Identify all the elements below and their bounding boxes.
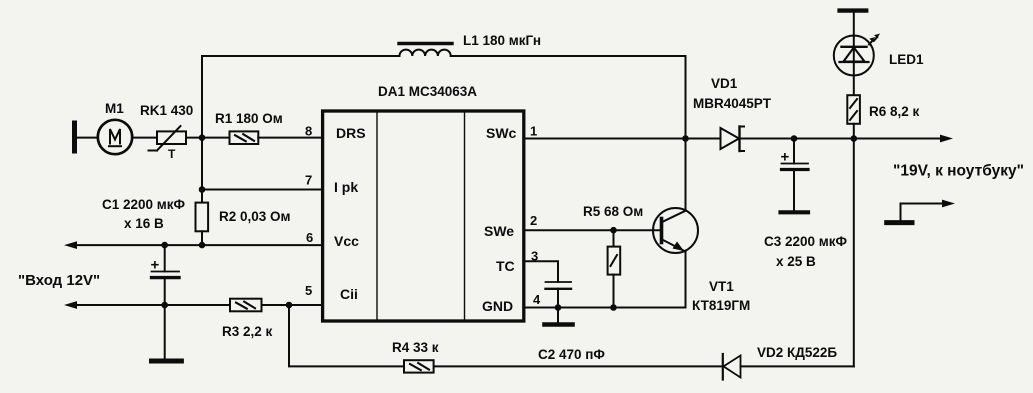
resistor R2 bbox=[196, 203, 209, 232]
junction SWc/collector/L1 bbox=[682, 135, 689, 142]
svg-text:1: 1 bbox=[530, 124, 537, 139]
svg-text:VD1: VD1 bbox=[711, 76, 738, 91]
wire: vertical bus x=202 from top rail down to pin7 junction bbox=[201, 56, 203, 190]
wire: R5 top lead bbox=[613, 230, 615, 246]
wire: feedback bottom rail right of VD2 bbox=[741, 365, 854, 367]
wire: R2 bottom lead to Vcc rail bbox=[201, 231, 203, 245]
wire: pin 2 to VT1 base bbox=[524, 229, 662, 231]
svg-text:Cii: Cii bbox=[340, 286, 358, 302]
wire: pin 1 to VD1 bbox=[524, 138, 721, 140]
wire: RK1 to R1 through node A bbox=[186, 137, 230, 139]
resistor R4 bbox=[404, 360, 434, 372]
wire: plug to motor bbox=[76, 137, 98, 139]
svg-text:MBR4045PT: MBR4045PT bbox=[693, 96, 772, 111]
ground under C1 bbox=[152, 359, 182, 364]
wire: LED1 to R6 bbox=[853, 76, 855, 96]
svg-text:VD2 КД522Б: VD2 КД522Б bbox=[757, 345, 837, 360]
resistor R1 bbox=[230, 131, 259, 144]
thermistor RK1 bbox=[149, 126, 187, 161]
junction R2/Vcc rail bbox=[199, 242, 206, 249]
capacitor C2 bbox=[546, 282, 572, 289]
input - rail arrow bbox=[64, 301, 323, 309]
svg-text:C2 470 пФ: C2 470 пФ bbox=[538, 347, 605, 362]
svg-text:C1 2200 мкФ: C1 2200 мкФ bbox=[102, 197, 186, 212]
svg-text:3: 3 bbox=[531, 249, 538, 264]
IC DA1 MC34063A bbox=[323, 111, 524, 321]
wire: feedback drop from output rail bbox=[853, 139, 855, 367]
junction R5/SWe bbox=[610, 227, 617, 234]
svg-text:GND: GND bbox=[482, 298, 513, 314]
wire: top rail from L1 to right column bbox=[451, 55, 686, 57]
wire: R1 to pin 8 bbox=[258, 137, 322, 139]
motor terminal plug bbox=[72, 123, 77, 151]
svg-text:+: + bbox=[781, 149, 790, 166]
svg-text:5: 5 bbox=[305, 283, 312, 298]
junction R5/ground rail bbox=[610, 304, 617, 311]
svg-text:T: T bbox=[168, 147, 176, 161]
svg-text:КТ819ГМ: КТ819ГМ bbox=[692, 298, 750, 313]
node A junction bbox=[199, 134, 206, 141]
svg-text:"19V, к ноутбуку": "19V, к ноутбуку" bbox=[893, 163, 1024, 180]
capacitor C1 bbox=[151, 257, 180, 278]
resistor R3 bbox=[230, 299, 262, 312]
input + rail arrow bbox=[64, 241, 323, 249]
wire: C3 top lead bbox=[793, 139, 795, 164]
svg-text:R3 2,2 к: R3 2,2 к bbox=[222, 324, 273, 339]
svg-text:DRS: DRS bbox=[336, 125, 366, 141]
diode VD1 (Schottky) bbox=[721, 127, 745, 152]
ground under C2 bbox=[545, 322, 573, 327]
svg-text:x 16 В: x 16 В bbox=[124, 216, 164, 231]
svg-text:C3 2200 мкФ: C3 2200 мкФ bbox=[764, 234, 848, 249]
svg-text:L1 180 мкГн: L1 180 мкГн bbox=[463, 33, 541, 48]
svg-text:RK1 430: RK1 430 bbox=[140, 103, 193, 118]
transistor VT1 bbox=[653, 208, 698, 253]
wire: pin 3 stub bbox=[524, 261, 558, 282]
svg-text:6: 6 bbox=[306, 230, 313, 245]
wire: C1 top lead bbox=[164, 245, 166, 271]
junction C2/ground rail bbox=[555, 304, 562, 311]
junction pin5/feedback bbox=[286, 302, 293, 309]
wire: VD1 to output arrow bbox=[740, 135, 954, 143]
svg-text:TC: TC bbox=[496, 258, 515, 274]
svg-text:R6 8,2 к: R6 8,2 к bbox=[869, 104, 920, 119]
wire: R6 to output rail bbox=[853, 124, 855, 139]
wire: top rail from node A to L1 bbox=[202, 55, 400, 57]
svg-text:Vcc: Vcc bbox=[334, 233, 359, 249]
svg-text:DA1 MC34063A: DA1 MC34063A bbox=[378, 84, 477, 99]
svg-text:R2 0,03 Ом: R2 0,03 Ом bbox=[219, 209, 291, 224]
right output ground terminal bbox=[887, 200, 955, 223]
wire: pin 7 from vertical bus to IC bbox=[202, 189, 323, 191]
wire: vertical drop from top rail to SWc node bbox=[685, 56, 687, 139]
wire: R4 to pin5 junction bbox=[289, 305, 404, 366]
svg-text:2: 2 bbox=[530, 213, 537, 228]
junction LED-R6/output bbox=[851, 135, 858, 142]
svg-text:8: 8 bbox=[305, 124, 312, 139]
inductor L1 bbox=[399, 44, 452, 57]
svg-text:R4 33 к: R4 33 к bbox=[392, 340, 439, 355]
wire: pin 4 ground rail to emitter bbox=[524, 307, 686, 309]
junction C1-gnd / minus rail bbox=[161, 302, 168, 309]
wire: emitter to ground rail bbox=[685, 252, 687, 308]
svg-text:VT1: VT1 bbox=[709, 279, 734, 294]
resistor R6 bbox=[847, 95, 860, 124]
ground above LED1 bbox=[840, 8, 867, 12]
wire: C3 bottom lead bbox=[793, 171, 795, 211]
diode VD2 bbox=[723, 354, 741, 380]
wire: VD2 to R4 bbox=[434, 365, 723, 367]
wire: C2 bottom to ground rail bbox=[557, 289, 559, 322]
ground under C3 bbox=[781, 210, 809, 214]
wire: R5 bottom lead bbox=[613, 275, 615, 308]
svg-text:R1 180 Ом: R1 180 Ом bbox=[215, 111, 283, 126]
svg-text:SWe: SWe bbox=[484, 223, 514, 239]
wire: ground to LED1 bbox=[853, 13, 855, 37]
junction C3/output bbox=[791, 135, 798, 142]
svg-text:7: 7 bbox=[305, 173, 312, 188]
svg-text:M1: M1 bbox=[105, 101, 124, 116]
wire: R2 top lead bbox=[201, 190, 203, 203]
svg-text:I pk: I pk bbox=[334, 179, 358, 195]
junction pin7/R2 bbox=[199, 186, 206, 193]
wire: C1 bottom lead to ground bbox=[164, 278, 166, 359]
LED LED1 bbox=[834, 34, 880, 76]
svg-text:"Вход 12V": "Вход 12V" bbox=[18, 272, 100, 289]
svg-text:4: 4 bbox=[533, 292, 541, 307]
wire: collector to SWc node bbox=[685, 139, 687, 211]
capacitor C3 bbox=[781, 149, 809, 170]
wire: motor to RK1 bbox=[132, 137, 157, 139]
svg-text:x 25 В: x 25 В bbox=[776, 254, 816, 269]
motor M1 bbox=[98, 120, 132, 154]
junction C1/Vcc rail bbox=[161, 242, 168, 249]
svg-text:SWc: SWc bbox=[486, 125, 517, 141]
svg-text:LED1: LED1 bbox=[889, 52, 924, 67]
resistor R5 bbox=[608, 247, 621, 275]
svg-text:R5 68 Ом: R5 68 Ом bbox=[583, 204, 643, 219]
svg-text:+: + bbox=[151, 257, 160, 274]
